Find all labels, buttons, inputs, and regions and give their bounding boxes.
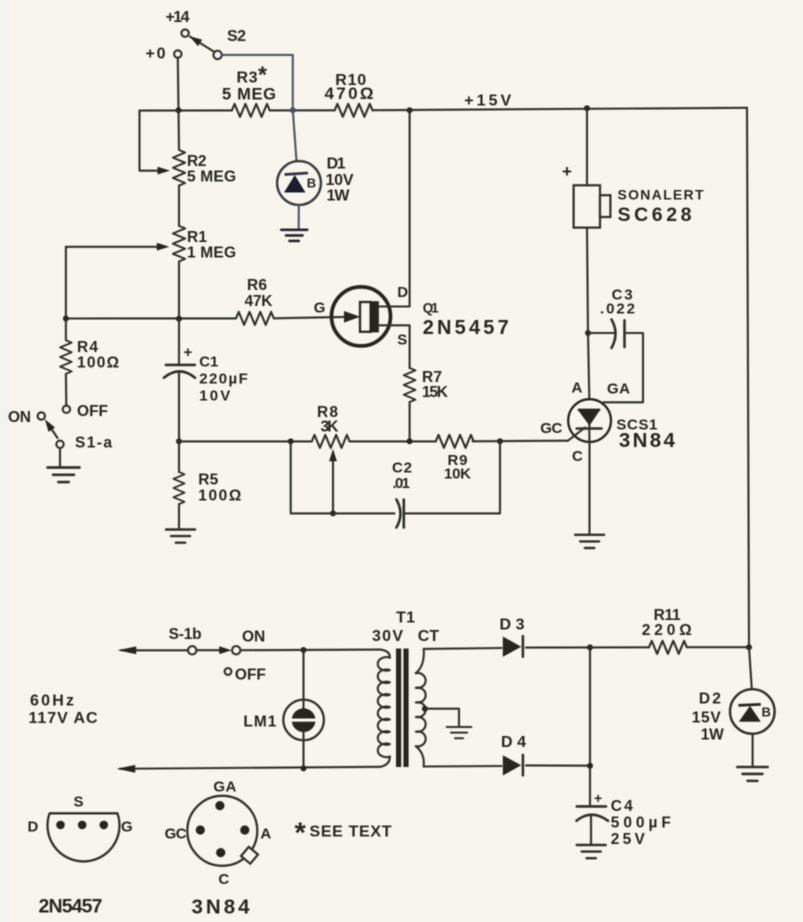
- svg-text:B: B: [307, 176, 316, 191]
- ground under R5: [166, 530, 195, 543]
- ground under D2: [737, 767, 767, 781]
- capacitor C2: [396, 500, 400, 528]
- wire R8 wiper arrow: [332, 458, 334, 514]
- svg-text:GA: GA: [607, 381, 630, 398]
- wire drain riser: [379, 110, 410, 306]
- svg-text:1W: 1W: [701, 727, 724, 744]
- svg-text:D1: D1: [327, 156, 346, 173]
- node junction R8-wiper-bottom: [330, 510, 336, 516]
- svg-text:S2: S2: [227, 28, 246, 45]
- svg-text:GA: GA: [213, 779, 236, 796]
- svg-text:D: D: [28, 819, 39, 836]
- resistor R2 (pot): [173, 150, 185, 186]
- wire anode stem: [588, 333, 589, 398]
- resistor R1 (pot): [173, 226, 185, 262]
- node +0 terminal: [174, 50, 181, 57]
- svg-text:S-1b: S-1b: [169, 626, 202, 643]
- svg-text:1W: 1W: [327, 188, 351, 205]
- wire C2 loop: [291, 441, 395, 513]
- svg-text:B: B: [762, 705, 771, 720]
- lamp LM1: [302, 650, 304, 709]
- transistor Q1 2N5457: [332, 287, 391, 346]
- svg-text:15V: 15V: [692, 710, 722, 727]
- resistor R5: [178, 441, 180, 472]
- svg-text:OFF: OFF: [235, 667, 266, 684]
- node junction c1-bottom: [176, 438, 182, 444]
- svg-text:+: +: [562, 162, 572, 181]
- wire AC top line with arrow: [121, 649, 188, 651]
- zener diode D1: [293, 110, 297, 161]
- diode D4: [503, 755, 521, 775]
- svg-text:220Ω: 220Ω: [642, 622, 692, 639]
- svg-text:ON: ON: [8, 409, 31, 426]
- svg-text:60Hz: 60Hz: [30, 693, 74, 710]
- svg-text:S: S: [397, 332, 407, 349]
- svg-text:S: S: [74, 794, 84, 811]
- svg-text:47K: 47K: [245, 293, 274, 310]
- wire main +15V rail: [140, 109, 232, 111]
- node junction rail-sonalert: [584, 105, 590, 111]
- resistor R3: [232, 104, 270, 117]
- wire secondary top to D3: [424, 647, 502, 650]
- svg-text:R3: R3: [237, 70, 258, 87]
- SCS1 3N84: [568, 399, 611, 442]
- svg-text:100Ω: 100Ω: [77, 355, 119, 372]
- resistor R7: [404, 368, 416, 402]
- wire S2 to rail (bluish): [222, 55, 293, 110]
- node junction lamp bottom: [301, 765, 307, 771]
- node +14 terminal: [181, 29, 188, 36]
- resistor R8 (pot): [312, 435, 350, 448]
- wire bottom line R8/R9: [179, 440, 312, 442]
- node junction R11-D2: [746, 644, 752, 650]
- svg-text:10V: 10V: [199, 388, 230, 405]
- 3N84 pin dots: [215, 801, 224, 810]
- svg-text:30V: 30V: [372, 628, 403, 645]
- resistor R6: [236, 312, 274, 325]
- svg-text:5 MEG: 5 MEG: [222, 86, 276, 104]
- wire source to R7: [379, 325, 410, 368]
- 2N5457 package outline: [48, 813, 120, 861]
- node junction g-left: [63, 316, 69, 322]
- svg-text:Q1: Q1: [423, 300, 439, 315]
- node junction rail-x178: [176, 107, 182, 113]
- ground under S1-a: [48, 468, 80, 483]
- svg-text:*: *: [295, 818, 307, 850]
- 2N5457 pin dots: [56, 821, 65, 830]
- svg-text:.01: .01: [393, 475, 411, 492]
- svg-text:R1: R1: [187, 229, 207, 246]
- svg-text:+14: +14: [166, 9, 190, 26]
- node junction lamp top: [301, 647, 307, 653]
- node junction D4-output: [587, 763, 593, 769]
- svg-text:ON: ON: [242, 629, 265, 646]
- svg-text:S1-a: S1-a: [75, 435, 112, 452]
- 3N84 tab: [241, 847, 258, 864]
- node junction rail-x293: [290, 107, 296, 113]
- wire +0 drop to rail: [177, 58, 180, 111]
- svg-text:A: A: [572, 380, 583, 397]
- resistor R10: [335, 104, 373, 117]
- ground under C4: [577, 845, 606, 858]
- wire AC bottom line with arrow: [120, 767, 381, 769]
- transformer T1 primary: [381, 650, 390, 658]
- svg-text:220µF: 220µF: [199, 371, 248, 388]
- switch S2: [213, 51, 221, 59]
- svg-text:10V: 10V: [326, 172, 354, 189]
- svg-text:SC628: SC628: [618, 204, 692, 226]
- capacitor C3: [588, 332, 614, 334]
- svg-text:SONALERT: SONALERT: [618, 187, 704, 203]
- svg-text:LM1: LM1: [243, 714, 276, 731]
- svg-text:R4: R4: [77, 339, 98, 356]
- node junction g-c1: [176, 316, 182, 322]
- transformer T1 core: [396, 649, 401, 768]
- wire secondary bottom to D4: [424, 765, 502, 768]
- svg-text:GC: GC: [540, 420, 562, 437]
- svg-text:R5: R5: [198, 472, 218, 489]
- switch S1-a: [63, 406, 70, 413]
- svg-text:C2: C2: [392, 460, 412, 477]
- node junction rail-x410: [407, 107, 413, 113]
- ground center tap: [447, 727, 472, 738]
- 3N84 package outline: [187, 796, 257, 866]
- wire cathode stem: [588, 443, 590, 534]
- node junction D3-output: [587, 644, 593, 650]
- svg-text:1 MEG: 1 MEG: [187, 245, 236, 262]
- svg-text:117V AC: 117V AC: [29, 710, 98, 727]
- resistor R11: [590, 646, 649, 648]
- node junction bl-290: [288, 438, 294, 444]
- svg-text:.022: .022: [600, 301, 635, 318]
- svg-text:C: C: [218, 871, 229, 888]
- svg-text:5 MEG: 5 MEG: [187, 169, 236, 186]
- capacitor C4: [577, 805, 606, 808]
- svg-text:GC: GC: [165, 826, 187, 843]
- wire gate line: [66, 317, 236, 319]
- svg-text:+: +: [184, 344, 193, 361]
- node junction bl-410: [407, 438, 413, 444]
- capacitor C1: [178, 319, 180, 365]
- svg-text:R6: R6: [247, 277, 267, 294]
- svg-text:+15V: +15V: [464, 93, 511, 110]
- svg-text:G: G: [314, 300, 326, 317]
- svg-text:T1: T1: [396, 610, 415, 627]
- svg-text:15K: 15K: [422, 384, 449, 401]
- svg-text:D: D: [397, 284, 408, 301]
- node junction C3 tap: [585, 330, 591, 336]
- transformer T1 secondary: [416, 649, 424, 673]
- svg-text:3N84: 3N84: [619, 429, 676, 452]
- svg-text:2N5457: 2N5457: [39, 896, 103, 918]
- svg-text:C4: C4: [611, 798, 633, 815]
- svg-text:C: C: [572, 448, 583, 465]
- zener diode D2: [749, 647, 752, 689]
- svg-text:CT: CT: [418, 628, 440, 645]
- svg-text:470Ω: 470Ω: [325, 84, 374, 103]
- wire rectifier vertical: [589, 647, 591, 806]
- sonalert SC628: [586, 108, 588, 185]
- wire R1 wiper line: [66, 246, 159, 248]
- node junction CT tap: [422, 706, 428, 712]
- svg-text:R2: R2: [187, 153, 207, 170]
- svg-text:*: *: [258, 62, 267, 88]
- svg-text:100Ω: 100Ω: [198, 488, 241, 505]
- svg-text:C1: C1: [199, 354, 218, 371]
- svg-text:10K: 10K: [444, 466, 471, 483]
- svg-text:SEE TEXT: SEE TEXT: [310, 824, 392, 841]
- svg-text:OFF: OFF: [77, 403, 108, 420]
- wire R2 wiper bracket: [140, 111, 162, 171]
- ground under D1: [281, 230, 307, 241]
- svg-text:3K: 3K: [321, 419, 340, 436]
- svg-text:D2: D2: [699, 691, 721, 708]
- wire right rail down: [747, 108, 749, 647]
- switch S-1b: [188, 646, 196, 654]
- svg-text:A: A: [260, 826, 271, 843]
- svg-text:25V: 25V: [611, 831, 646, 848]
- wire left chain verticals: [177, 110, 180, 150]
- wire GA loop: [604, 333, 644, 402]
- resistor R9: [436, 435, 474, 448]
- svg-text:G: G: [121, 819, 133, 836]
- diode D3: [503, 637, 521, 657]
- svg-text:+: +: [594, 790, 602, 806]
- resistor R4: [65, 319, 67, 341]
- ground under SCS1: [575, 535, 604, 548]
- node junction bl-500: [497, 438, 503, 444]
